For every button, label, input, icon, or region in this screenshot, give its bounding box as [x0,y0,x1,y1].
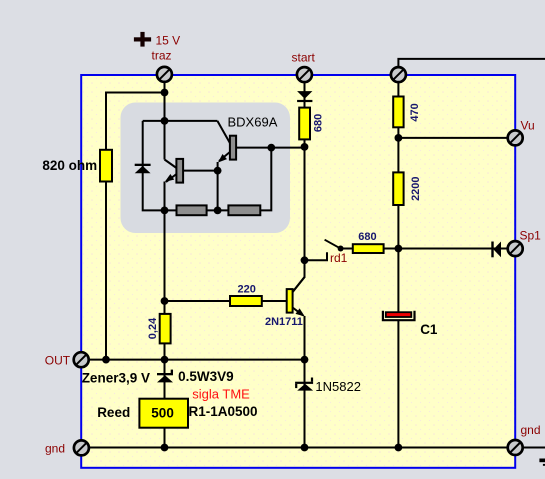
connector start [297,67,312,82]
svg-text:Reed: Reed [97,405,130,420]
wire C1 branch lower [397,321,399,448]
resistor 680 vertical [299,108,310,140]
svg-text:gnd: gnd [45,442,65,456]
resistor 820 ohm [100,150,112,182]
switch rd1 arm [325,240,341,249]
diode at start input [297,91,312,102]
wire node B2 down [260,148,271,211]
resistor 0,24 [160,314,171,344]
svg-text:Vu: Vu [521,118,535,132]
wire Sp1 branch down (1N5822) [304,360,306,448]
junction node start-base [301,143,309,151]
resistor 2200 [393,172,403,205]
transistor Q1a emitter arrow [165,174,174,182]
svg-text:220: 220 [238,283,256,295]
svg-text:820 ohm: 820 ohm [42,158,97,173]
wire start branch vertical [304,80,306,260]
svg-text:BDX69A: BDX69A [228,114,278,129]
transistor Q2 emitter arrow [296,308,305,316]
svg-text:15 V: 15 V [156,33,181,47]
svg-text:680: 680 [313,114,325,132]
reed relay coil 500 [139,399,188,428]
transistor Q2 2N1711 bar [287,289,293,313]
wire OUT line [81,359,304,361]
wire 2N1711 base / 220 line [165,300,287,302]
wire switch fixed contact [305,252,328,260]
junction node traz [161,89,169,97]
junction node Q1a emitter rail [161,207,169,215]
wire 470/2200 branch [397,80,399,249]
junction node OUT-Q2e [301,356,309,364]
svg-text:Zener3,9 V: Zener3,9 V [82,371,150,386]
transistor Q1a bar [176,159,183,183]
junction node 220 tap [161,297,169,305]
svg-text:traz: traz [152,49,172,63]
transistor Q2 emitter lead [293,308,303,316]
wire gnd line [81,447,545,449]
svg-text:680: 680 [358,231,376,243]
wire 2N1711 emitter down [304,316,306,360]
plus symbol 15V [134,32,151,47]
wire BDX collector rail [143,120,218,122]
resistor 470 [393,97,403,128]
svg-text:C1: C1 [420,322,438,337]
svg-text:Sp1: Sp1 [520,229,542,243]
board outline [81,75,515,468]
transistor Q1a emitter lead [166,174,177,182]
wire 820 branch [106,93,165,360]
svg-text:gnd: gnd [521,423,541,437]
svg-text:OUT: OUT [45,354,71,368]
junction node gnd-main [161,444,169,452]
diode 1N5822 [295,378,313,391]
junction node Vu tap [395,134,403,142]
BDX internal diode [135,164,151,174]
junction node switch [301,256,309,264]
transistor Q1b emitter arrow [218,154,227,163]
wire Q1b base to start node [236,147,304,149]
transistor Q2 collector lead [293,277,305,292]
diode at Sp1 [491,242,501,258]
wire top feed to right edge [398,59,545,70]
svg-text:rd1: rd1 [330,251,348,265]
wire C1 branch upper [397,249,399,313]
svg-text:470: 470 [409,103,421,121]
junction node OUT-820 [102,356,110,364]
transistor Q1b emitter lead [219,152,230,161]
svg-text:sigla TME: sigla TME [192,387,250,402]
connector gnd right [508,440,523,455]
transistor Q1b bar [230,136,236,160]
wire Vu line [398,137,515,139]
resistor 220 [230,296,262,306]
junction node Q1a base [214,167,222,175]
BDX69A module box [121,103,291,234]
svg-text:2N1711: 2N1711 [265,316,303,328]
ground stub bottom right [539,459,545,463]
resistor 680 horizontal [353,244,384,253]
wire Q1b emitter to Q1a base node [217,162,219,210]
wire main vertical upper (traz to Q1a collector) [164,80,166,160]
transistor Q1a collector lead [165,160,177,169]
wire main vertical lower (Q1a emitter to gnd) [164,182,166,448]
resistor Rb (BDX internal) [228,205,260,215]
junction node B2 [267,144,275,152]
connector Vu [508,130,523,145]
transistor Q1b collector lead [217,121,230,143]
wire BDX diode branch [143,121,165,210]
junction node OUT-main [161,356,169,364]
svg-text:2200: 2200 [410,176,422,200]
svg-text:0.5W3V9: 0.5W3V9 [178,369,234,384]
junction node rail [161,117,169,125]
junction node Ra-Rb [214,207,222,215]
svg-text:0,24: 0,24 [147,317,159,339]
junction node Sp1 tap [395,245,403,253]
connector gnd left [74,440,89,455]
svg-text:500: 500 [151,406,174,421]
connector top feed [391,67,406,82]
svg-text:start: start [292,51,316,65]
wire 2N1711 collector [293,260,305,292]
connector OUT [74,352,89,367]
resistor Ra (BDX internal) [177,205,207,215]
svg-text:1N5822: 1N5822 [315,379,361,394]
svg-text:R1-1A0500: R1-1A0500 [189,404,258,419]
connector traz [157,67,172,82]
junction node rd1 pivot [338,246,344,252]
wire BDX bottom rail [165,209,261,211]
zener diode 3,9V [157,370,173,383]
wire rd1 to Sp1 line [341,248,515,250]
capacitor C1 [383,311,415,320]
wire Q1a base lead [183,170,218,172]
junction node gnd-C1 [395,444,403,452]
junction node gnd-5822 [301,444,309,452]
connector Sp1 [508,241,523,256]
